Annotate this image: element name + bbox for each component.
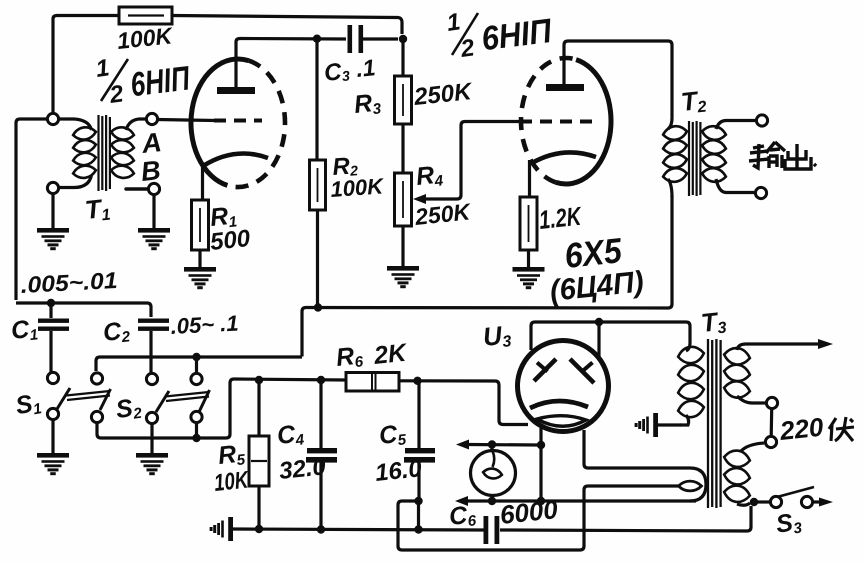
wire R5 bottom lead (257, 486, 260, 528)
label C5 value 16.0 (374, 455, 424, 487)
transformer T3 secondary top winding (723, 346, 751, 399)
svg-text:T3: T3 (699, 306, 727, 339)
svg-text:1: 1 (445, 8, 462, 37)
svg-text:2: 2 (107, 80, 126, 109)
resistor R5 (249, 382, 269, 486)
svg-text:250K: 250K (413, 198, 473, 230)
ground below Rk (513, 267, 545, 289)
wire T2 primary bottom lead (668, 196, 672, 308)
svg-text:C2: C2 (102, 316, 132, 348)
label (6Ts4P) (548, 265, 645, 308)
label .005~.01 (20, 267, 118, 298)
svg-text:.1: .1 (355, 54, 377, 82)
svg-text:C5: C5 (378, 419, 408, 451)
wire coupling bus y303 (16, 303, 151, 317)
svg-text:A: A (139, 127, 163, 159)
tube V2 plate (546, 84, 584, 91)
wire HT bus corner joining switch bus (300, 352, 303, 357)
node junction lamp top (488, 440, 496, 448)
wire heater pair upper and U-turn (584, 430, 706, 501)
wire R6 right to rectifier (399, 381, 528, 425)
tube V2 cathode lead (528, 160, 531, 197)
label C6 value 6000 (498, 494, 559, 530)
wire T1 primary bottom to ground (51, 194, 54, 228)
ground bottom bus (left facing) (210, 517, 233, 541)
wire B tap stub (126, 187, 148, 190)
svg-text:500: 500 (209, 225, 252, 256)
ground below S2 (136, 453, 168, 475)
label C5 (378, 419, 408, 451)
svg-text:.005~.01: .005~.01 (20, 267, 118, 298)
tube V1 grid (dashed) (214, 119, 262, 123)
label output (Chinese) (749, 142, 816, 169)
label C1 (10, 314, 39, 346)
transformer T2 secondary top lead (716, 121, 755, 130)
terminal S2 upper left (146, 373, 157, 384)
svg-text:250K: 250K (412, 78, 475, 111)
terminal output top (756, 115, 767, 126)
wire bottom bus (233, 529, 484, 530)
transformer T3 secondary top-bottom lead (737, 396, 765, 403)
tube V1 plate (217, 87, 255, 94)
wire switch output bus to R6 bus (97, 379, 346, 438)
resistor Rk 1.2K (520, 197, 537, 250)
svg-text:2: 2 (458, 34, 477, 63)
terminal S2 lower left (146, 412, 157, 423)
label .05~.1 (170, 310, 239, 339)
transformer T2 secondary bottom lead (716, 179, 754, 193)
svg-text:6НІП: 6НІП (479, 12, 554, 58)
terminal output bottom (755, 187, 766, 198)
tube V2 plate lead (564, 41, 672, 118)
node junction S2 output (192, 434, 200, 442)
transformer T2 primary bottom curve (668, 179, 672, 197)
label T2 (679, 85, 707, 118)
svg-text:1: 1 (94, 54, 111, 83)
wire C6 right to transformer T3 (500, 506, 751, 531)
transformer T3 mains bottom lead (737, 503, 750, 505)
node junction cathode / filament line (537, 441, 545, 449)
wire U3 cathode lead (539, 428, 542, 443)
tube V2 envelope (1/2 6N1P, dashed left half) (521, 58, 611, 184)
ground below S1 (37, 453, 69, 475)
label S2 (114, 393, 143, 425)
svg-text:B: B (139, 155, 162, 187)
svg-text:C1: C1 (10, 314, 39, 346)
label R4 value 250K (413, 198, 473, 230)
open arrow heater tap (679, 481, 702, 491)
label C3 .1 (323, 54, 377, 87)
label T3 (699, 306, 727, 339)
wire R3 top lead (401, 41, 404, 76)
transformer T1 secondary top lead (126, 119, 146, 130)
terminal S1 upper right (91, 373, 102, 384)
label 1/2 6N1P (V2) (445, 8, 555, 63)
node junction C5 top (413, 377, 421, 385)
transformer T1 primary top lead (59, 119, 92, 130)
svg-text:C3: C3 (323, 57, 351, 87)
svg-text:R6: R6 (335, 341, 365, 373)
wire S2 lower-right stub (195, 423, 198, 436)
label A (139, 127, 163, 159)
label 1/2 6N1P (V1) (94, 54, 193, 109)
node junction C4 top (317, 376, 325, 384)
transformer T3 HV winding top lead (686, 343, 690, 351)
svg-text:C4: C4 (276, 419, 306, 451)
tube V1 grid lead from input transformer (157, 120, 215, 121)
tube V1 cathode lead (201, 163, 204, 200)
transformer T2 secondary winding (701, 125, 727, 184)
wire U3 anode bus (531, 322, 690, 350)
svg-text:6НІП: 6НІП (128, 59, 192, 104)
tube V1 cathode arc (203, 154, 268, 167)
transformer T2 primary top lead (668, 118, 672, 129)
node junction C1 top (47, 299, 55, 307)
switch S2 blade (156, 390, 210, 412)
resistor R4 (potentiometer) (395, 173, 412, 226)
label S3 (774, 507, 803, 539)
tube V2 cathode arc (532, 152, 596, 163)
wire R1 bottom lead (198, 250, 201, 267)
wire HT bus (middle horizontal) (302, 308, 668, 353)
ground below R4 (387, 266, 419, 288)
wire R2 top lead (315, 41, 318, 160)
rectifier U3 left anode (534, 359, 556, 381)
node junction R3 top / C3 (399, 35, 407, 43)
wire B+ top bus left segment with corner to input node (53, 16, 119, 113)
label R2 value 100K (330, 173, 386, 202)
svg-text:10K: 10K (213, 466, 251, 497)
wire switch feed bus (96, 357, 302, 371)
label 220V (777, 412, 854, 447)
label 100K (116, 22, 175, 54)
svg-text:220: 220 (777, 412, 825, 447)
wire heater/cathode down (539, 447, 542, 499)
transformer T1 core (99, 115, 110, 191)
wire filament line top with arrow (456, 440, 539, 450)
wire stub to S2 terminal (195, 357, 198, 372)
svg-text:1.2K: 1.2K (537, 201, 584, 235)
wire input from left edge (16, 119, 47, 300)
label R6 2K (335, 339, 410, 373)
svg-text:R3: R3 (353, 88, 383, 120)
wire C5 node to bottom bus (417, 503, 420, 529)
wire S2 lower-left to ground (150, 424, 153, 453)
resistor R6 (346, 373, 399, 392)
label C4 value 32.0 (278, 453, 328, 485)
terminal S2 upper right (191, 373, 202, 384)
terminal 220V top (766, 397, 777, 408)
terminal S2 lower right (191, 411, 202, 422)
wire grid coupling line from V1 plate corner to C3 (236, 39, 346, 93)
wire Rk bottom lead (527, 250, 530, 267)
terminal S1 lower right (91, 411, 102, 422)
label B (139, 155, 162, 187)
node junction lamp bottom (488, 497, 496, 505)
svg-text:16.0: 16.0 (374, 455, 424, 487)
transformer T3 core (708, 339, 721, 508)
capacitor C1 (38, 305, 69, 372)
capacitor C3 (plates) (348, 25, 399, 53)
switch S1 blade (57, 388, 111, 410)
transformer T1 primary bottom lead (59, 175, 92, 188)
svg-text:R4: R4 (415, 160, 445, 192)
node junction R2 top (313, 35, 321, 43)
label C2 (102, 316, 132, 348)
transformer T2 primary winding (662, 125, 688, 184)
transformer T3 mains winding (lower right) (723, 449, 751, 504)
wire HV centre tap to ground (658, 423, 681, 426)
node junction R5 top (255, 376, 263, 384)
terminal S1 lower left (47, 408, 58, 419)
label R5 value 10K (213, 466, 251, 497)
ground below T1 primary (37, 228, 69, 250)
svg-text:T1: T1 (83, 193, 111, 226)
transformer T1 secondary winding (110, 126, 134, 180)
wire C5 bottom jog to heater return (398, 486, 679, 550)
wire top bus from 100K to R3 corner (172, 16, 402, 35)
svg-text:S1: S1 (13, 388, 43, 421)
svg-text:32.0: 32.0 (278, 453, 328, 485)
svg-text:U3: U3 (481, 319, 512, 353)
wire S1 lower-left to ground (51, 420, 54, 453)
svg-text:S2: S2 (114, 393, 143, 425)
transformer T3 secondary top arrow lead (737, 339, 833, 350)
transformer T3 HV winding (left) (677, 345, 705, 419)
lamp pilot light (471, 447, 516, 500)
rectifier U3 right anode (570, 359, 594, 383)
svg-text:100K: 100K (116, 22, 175, 54)
terminal T1 primary bottom (47, 182, 58, 193)
label C6 (448, 500, 478, 532)
capacitor C5 (404, 382, 435, 499)
resistor 100K (grid feed) (119, 7, 172, 24)
svg-text:(6Ц4П): (6Ц4П) (548, 265, 645, 308)
label R3 (353, 88, 383, 120)
ground below R1 (184, 267, 216, 289)
node junction C5 bottom (414, 497, 422, 505)
node junction C4 bottom (317, 525, 325, 533)
node junction U3 right anode (595, 318, 603, 326)
switch S3 (770, 487, 833, 508)
ground T3 (left facing) (635, 413, 658, 437)
transformer T1 primary winding (72, 126, 96, 180)
rectifier U3 envelope (518, 341, 609, 432)
capacitor C2 (138, 319, 169, 374)
node junction R2 bottom / HT bus (314, 303, 322, 311)
rectifier U3 base boat (537, 416, 586, 427)
node junction S3 feed (750, 498, 758, 506)
wire R3 to R4 (401, 124, 404, 173)
node junction filament bottom left (537, 497, 545, 505)
tube V2 grid (dashed) (520, 120, 600, 124)
wiper arrow into R4 (413, 194, 426, 204)
label S1 (13, 388, 43, 421)
wire U3 right anode lead (597, 324, 600, 356)
label C4 (276, 419, 306, 451)
transformer T2 core (689, 121, 700, 196)
ground below terminal B (138, 228, 170, 250)
svg-text:.05~ .1: .05~ .1 (170, 310, 239, 339)
node junction bottom bus C5 (414, 525, 422, 533)
terminal S1 upper left (47, 372, 58, 383)
wire R4 bottom lead (401, 226, 404, 266)
label 6X5 (563, 231, 624, 276)
label R1 value 500 (209, 225, 252, 256)
node junction R5 bottom (255, 525, 263, 533)
label R2 (332, 152, 359, 181)
label R4 (415, 160, 445, 192)
resistor R1 (192, 200, 209, 250)
svg-text:100K: 100K (330, 173, 386, 202)
label R3 value 250K (412, 78, 475, 111)
wire to S3 (757, 500, 770, 503)
label U3 (481, 319, 512, 353)
rectifier U3 cathode arc (530, 401, 588, 408)
tube V1 envelope (1/2 6N1P, dashed right half) (191, 59, 285, 187)
svg-text:C6: C6 (448, 500, 478, 532)
label 1.2K value (537, 201, 584, 235)
wire V2 grid to R4 wiper (424, 122, 520, 200)
node junction switch bus tap (192, 353, 200, 361)
wire filament line bottom with arrow (455, 496, 696, 506)
svg-text:T2: T2 (679, 85, 707, 118)
wire B terminal to ground (152, 195, 155, 228)
wire R2 bottom lead (316, 210, 319, 305)
label R1 (209, 201, 238, 233)
transformer T3 HV bottom lead (680, 415, 689, 425)
wire V1 cathode to R1 (199, 200, 202, 201)
label R5 (217, 439, 247, 471)
wire 220V tap (770, 409, 774, 436)
resistor R2 (310, 160, 326, 210)
terminal A (grid input) (146, 113, 157, 124)
label T1 (83, 193, 111, 226)
capacitor C4 (306, 382, 337, 528)
terminal input top-left (47, 113, 58, 124)
svg-text:S3: S3 (774, 507, 803, 539)
terminal B (148, 183, 159, 194)
capacitor C6 (484, 516, 500, 544)
transformer T3 mains winding top lead (741, 443, 764, 451)
svg-text:2K: 2K (372, 339, 410, 370)
terminal 220V bottom (765, 436, 776, 447)
resistor R3 (395, 76, 412, 124)
